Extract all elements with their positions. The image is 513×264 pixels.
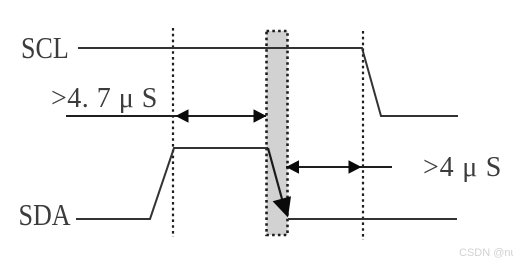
setup/hold shaded region (grey band): [267, 31, 288, 235]
svg-text:CSDN @nul: CSDN @nul: [459, 247, 513, 259]
svg-text:SDA: SDA: [19, 198, 71, 233]
SDA falling edge inside band: [268, 148, 282, 199]
SDA waveform low right: [288, 218, 457, 220]
4.7uS dimension line: [66, 115, 266, 117]
svg-text:SCL: SCL: [21, 31, 69, 66]
4.7uS right arrowhead: [254, 109, 267, 122]
4uS right arrowhead: [349, 160, 362, 173]
dotted marker line (left, start of SDA high): [172, 28, 174, 237]
4uS left arrowhead: [286, 160, 299, 173]
SDA falling-edge arrowhead: [273, 196, 291, 217]
dotted marker line (right, SCL falling edge): [362, 31, 364, 240]
4uS dimension line: [286, 166, 392, 168]
svg-text:>4. 7 μ S: >4. 7 μ S: [51, 83, 158, 114]
4.7uS left arrowhead: [176, 109, 189, 122]
SCL waveform: [78, 48, 458, 116]
svg-text:>4 μ S: >4 μ S: [423, 152, 502, 183]
SDA waveform left/high: [76, 148, 268, 219]
